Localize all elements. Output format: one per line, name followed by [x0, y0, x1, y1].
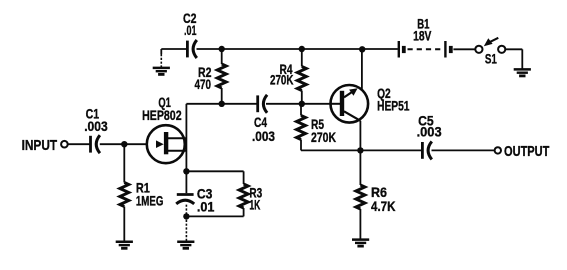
svg-text:.01: .01: [184, 22, 197, 38]
svg-text:1MEG: 1MEG: [136, 193, 164, 209]
svg-text:OUTPUT: OUTPUT: [504, 143, 549, 160]
svg-text:18V: 18V: [413, 28, 432, 44]
svg-text:INPUT: INPUT: [22, 137, 58, 154]
svg-text:HEP51: HEP51: [377, 97, 410, 113]
svg-text:1K: 1K: [249, 196, 260, 212]
svg-text:.01: .01: [197, 198, 215, 214]
svg-text:470: 470: [195, 76, 212, 92]
svg-text:.003: .003: [84, 118, 108, 134]
svg-text:4.7K: 4.7K: [371, 198, 396, 214]
svg-text:.003: .003: [252, 128, 275, 144]
svg-text:HEP802: HEP802: [142, 107, 182, 123]
svg-text:S1: S1: [485, 51, 497, 67]
svg-text:270K: 270K: [270, 72, 294, 88]
svg-text:270K: 270K: [311, 129, 336, 145]
svg-text:.003: .003: [417, 124, 442, 140]
